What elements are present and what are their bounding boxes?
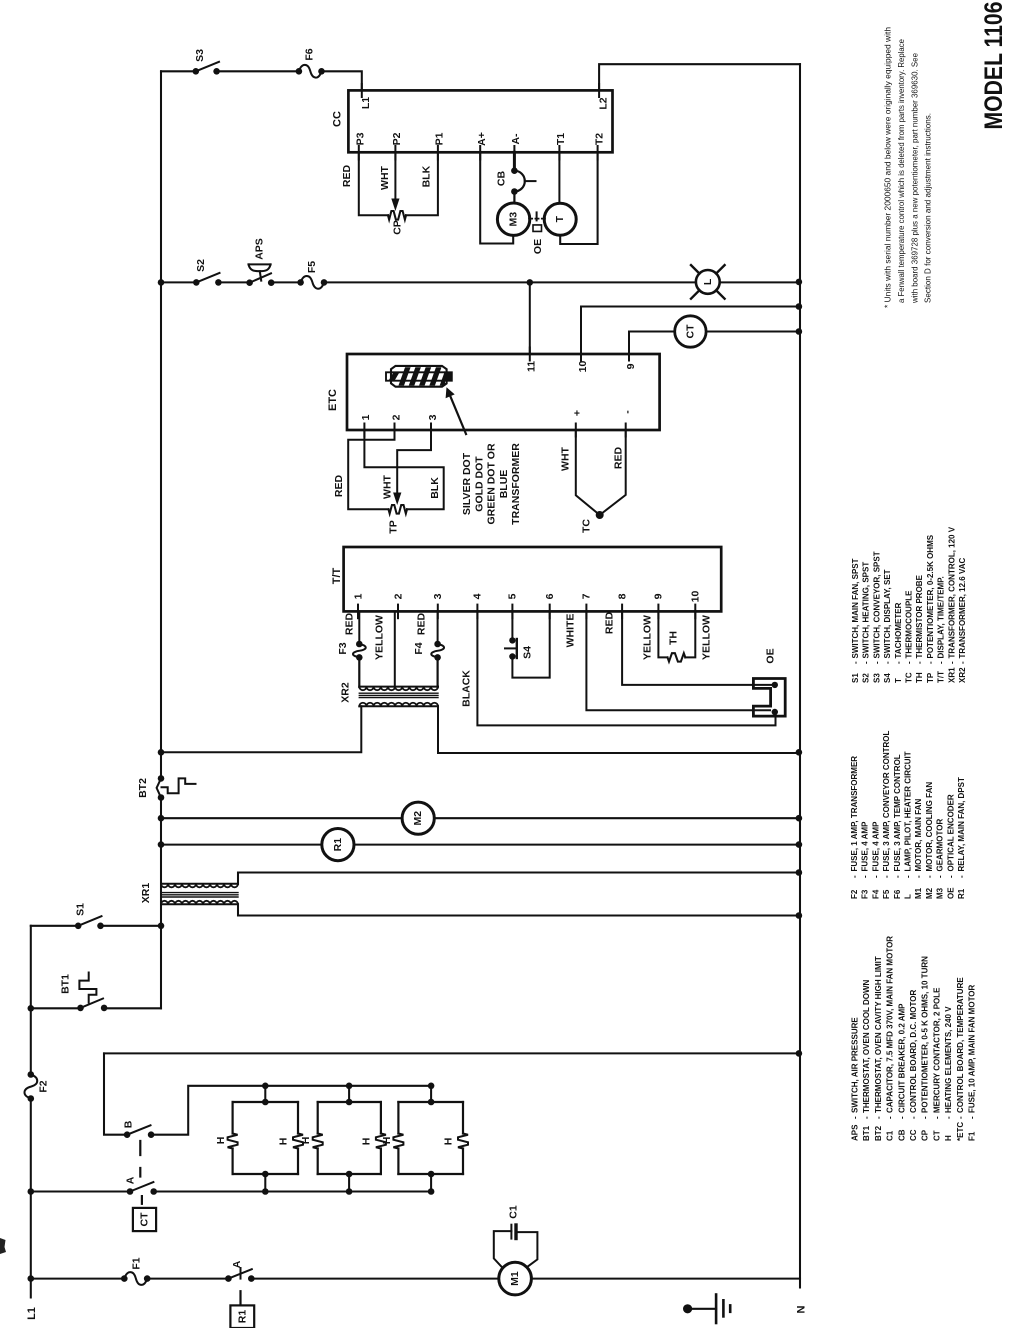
- svg-text:H: H: [360, 1138, 372, 1146]
- svg-text:RED: RED: [341, 164, 353, 187]
- svg-text:YELLOW: YELLOW: [642, 615, 654, 660]
- pin 8 of T/T: [621, 605, 623, 619]
- wire: T/T pin3 (RED) to F4: [437, 611, 439, 644]
- svg-text:F3: F3: [337, 642, 349, 654]
- svg-text:OE: OE: [946, 887, 955, 899]
- svg-text:F2: F2: [850, 889, 859, 899]
- svg-text:-: -: [936, 875, 945, 878]
- svg-text:DISPLAY, TIME/TEMP.: DISPLAY, TIME/TEMP.: [937, 576, 946, 658]
- wire: T/T pin2 (YELLOW) to XR2 tap: [394, 611, 396, 687]
- svg-text:H: H: [443, 1138, 455, 1146]
- svg-text:TP: TP: [926, 672, 935, 683]
- svg-text:CIRCUIT BREAKER, 0.2 AMP: CIRCUIT BREAKER, 0.2 AMP: [897, 1003, 906, 1113]
- switch S1: [75, 923, 82, 930]
- transformer XR2: [359, 686, 438, 688]
- svg-text:THERMOSTAT, OVEN CAVITY HIGH L: THERMOSTAT, OVEN CAVITY HIGH LIMIT: [874, 956, 883, 1113]
- svg-text:OE: OE: [532, 239, 544, 254]
- wire: T1 to tach T: [558, 152, 560, 203]
- pin L2 of CC: [598, 84, 600, 97]
- svg-text:BT2: BT2: [137, 778, 149, 798]
- svg-text:R1: R1: [957, 888, 966, 899]
- svg-text:BLK: BLK: [421, 165, 433, 187]
- svg-text:S4: S4: [522, 646, 534, 659]
- svg-text:MOTOR, COOLING FAN: MOTOR, COOLING FAN: [925, 782, 934, 872]
- svg-text:TC: TC: [581, 519, 593, 533]
- svg-text:RED: RED: [613, 446, 625, 469]
- svg-text:CONTROL BOARD, TEMPERATURE: CONTROL BOARD, TEMPERATURE: [956, 977, 965, 1113]
- svg-text:FUSE, 4 AMP: FUSE, 4 AMP: [871, 821, 880, 872]
- svg-text:R1: R1: [237, 1310, 249, 1324]
- svg-text:F6: F6: [893, 889, 902, 899]
- svg-text:A+: A+: [476, 132, 488, 146]
- pin P1 of CC: [437, 146, 439, 160]
- wire: P2 wiper (WHT): [394, 152, 396, 198]
- wire: XR2 primary right to N bus: [438, 706, 800, 753]
- svg-text:-: -: [861, 875, 870, 878]
- wire: ETC - to TC (RED): [600, 430, 626, 515]
- svg-text:TP: TP: [388, 520, 400, 533]
- svg-text:M2: M2: [925, 887, 934, 899]
- wire: pin11 to F5 line: [529, 282, 531, 354]
- wire: T/T pin8 (RED) to OE: [622, 611, 775, 685]
- svg-text:-: -: [883, 661, 892, 664]
- svg-text:-: -: [862, 1116, 871, 1119]
- svg-text:-: -: [905, 661, 914, 664]
- wire: T/T pin5 to S4: [511, 611, 513, 640]
- svg-text:* Units with serial number 200: * Units with serial number 2000650 and b…: [883, 27, 893, 308]
- wire: P1 to CP (BLK): [406, 152, 438, 215]
- svg-text:-: -: [893, 875, 902, 878]
- svg-text:CC: CC: [331, 111, 343, 127]
- svg-text:4: 4: [472, 593, 484, 599]
- svg-text:BT1: BT1: [60, 974, 72, 994]
- svg-text:9: 9: [653, 593, 665, 599]
- svg-text:WHT: WHT: [560, 446, 572, 470]
- svg-text:-: -: [872, 661, 881, 664]
- pin P3 of CC: [358, 146, 360, 160]
- svg-text:TC: TC: [905, 672, 914, 683]
- svg-text:POTENTIOMETER, 0-5 K OHMS, 10: POTENTIOMETER, 0-5 K OHMS, 10 TURN: [921, 956, 930, 1113]
- svg-text:10: 10: [577, 361, 589, 373]
- svg-text:SWITCH, DISPLAY, SET: SWITCH, DISPLAY, SET: [883, 569, 892, 658]
- junction: left bus / S2 line: [158, 279, 165, 286]
- svg-text:*ETC: *ETC: [956, 1122, 965, 1141]
- optical encoder OE: [753, 679, 785, 717]
- svg-text:-: -: [882, 875, 891, 878]
- svg-text:S2: S2: [862, 673, 871, 683]
- dashed link A to R1 box: [240, 1268, 242, 1279]
- svg-text:WHT: WHT: [379, 165, 391, 189]
- svg-text:10: 10: [690, 591, 702, 603]
- lamp L: [696, 270, 720, 294]
- svg-text:F6: F6: [304, 48, 316, 60]
- svg-text:TRANSFORMER, 12.6 VAC: TRANSFORMER, 12.6 VAC: [958, 558, 967, 659]
- svg-text:M1: M1: [914, 887, 923, 899]
- wire: main left bus (switched L1): [160, 71, 162, 1008]
- potentiometer CP: [388, 211, 406, 220]
- pin 2 of T/T: [397, 605, 399, 619]
- pin 10 of T/T: [694, 605, 696, 619]
- svg-text:THERMOSTAT, OVEN COOL DOWN: THERMOSTAT, OVEN COOL DOWN: [862, 979, 871, 1113]
- svg-text:-: -: [947, 661, 956, 664]
- svg-text:F1: F1: [131, 1257, 143, 1269]
- svg-text:-: -: [937, 661, 946, 664]
- relay R1 (box): [230, 1305, 254, 1328]
- svg-text:A: A: [125, 1176, 137, 1184]
- wire: A- to CB: [513, 152, 516, 170]
- svg-text:WHITE: WHITE: [565, 614, 577, 648]
- pin T2 of CC: [597, 146, 599, 160]
- wire: heater bottom rail: [31, 1190, 431, 1192]
- svg-text:6: 6: [544, 593, 556, 599]
- svg-text:-: -: [874, 1116, 883, 1119]
- wire: TH to T/T pin10 (YELLOW): [685, 611, 695, 657]
- svg-text:-: -: [851, 661, 860, 664]
- svg-text:2: 2: [392, 593, 404, 599]
- svg-text:F3: F3: [861, 889, 870, 899]
- pin 1 of ETC: [363, 424, 365, 437]
- heating elements H pair 3: [398, 1102, 463, 1174]
- wire: R1 line: [161, 844, 800, 846]
- svg-text:YELLOW: YELLOW: [374, 615, 386, 660]
- svg-text:HEATING ELEMENTS, 240 V: HEATING ELEMENTS, 240 V: [944, 1006, 953, 1113]
- svg-text:CC: CC: [909, 1129, 918, 1141]
- svg-text:-: -: [956, 1116, 965, 1119]
- svg-text:5: 5: [507, 593, 519, 599]
- transformer XR1: [161, 883, 238, 885]
- svg-text:M3: M3: [936, 887, 945, 899]
- pin 2 of ETC: [394, 424, 396, 437]
- svg-text:CT: CT: [684, 324, 696, 339]
- svg-text:P2: P2: [391, 132, 403, 145]
- pin 10 of ETC: [580, 348, 582, 361]
- svg-text:RED: RED: [416, 612, 428, 635]
- svg-text:-: -: [894, 661, 903, 664]
- pin P2 of CC: [394, 146, 396, 160]
- svg-text:-: -: [944, 1116, 953, 1119]
- svg-text:-: -: [871, 875, 880, 878]
- svg-text:-: -: [909, 1116, 918, 1119]
- wire: ETC pin3 wiper (WHT): [397, 430, 431, 492]
- mercury contactor CT (box): [133, 1208, 156, 1231]
- wire: T/T pin9 (YELLOW) to TH: [658, 611, 667, 657]
- pin 7 of T/T: [585, 605, 587, 619]
- wire: heater feed drop to B: [104, 1053, 127, 1134]
- pin A+ of CC: [479, 146, 481, 160]
- svg-text:WHT: WHT: [382, 474, 394, 498]
- wire: M2 line: [161, 817, 800, 819]
- svg-text:F4: F4: [871, 889, 880, 899]
- svg-text:S2: S2: [195, 259, 207, 272]
- svg-text:CT: CT: [139, 1212, 151, 1227]
- svg-text:RED: RED: [604, 611, 616, 634]
- pin - of ETC: [625, 424, 627, 437]
- svg-text:3: 3: [427, 414, 439, 420]
- wire: pin10 to N bus: [581, 307, 800, 355]
- svg-text:OPTICAL ENCODER: OPTICAL ENCODER: [946, 794, 955, 871]
- pin 3 of ETC: [430, 424, 432, 437]
- svg-text:with board 369728 plus a new p: with board 369728 plus a new potentiomet…: [909, 53, 919, 304]
- switch S4 (pushbutton): [509, 637, 515, 643]
- svg-text:BLACK: BLACK: [461, 670, 473, 707]
- wire: B to heater top rail: [151, 1086, 431, 1135]
- svg-text:S1: S1: [851, 673, 860, 683]
- svg-text:FUSE, 3 AMP, CONVEYOR CONTROL: FUSE, 3 AMP, CONVEYOR CONTROL: [882, 730, 891, 871]
- svg-text:F2: F2: [38, 1080, 50, 1092]
- wire: F4 to XR2: [437, 657, 439, 687]
- svg-text:-: -: [904, 875, 913, 878]
- svg-text:BT2: BT2: [874, 1125, 883, 1141]
- svg-text:-: -: [862, 661, 871, 664]
- svg-text:CP: CP: [921, 1129, 930, 1141]
- svg-text:F5: F5: [306, 261, 318, 273]
- svg-text:FUSE, 1 AMP, TRANSFORMER: FUSE, 1 AMP, TRANSFORMER: [850, 756, 859, 872]
- svg-text:XR2: XR2: [958, 667, 967, 683]
- svg-text:-: -: [968, 1116, 977, 1119]
- wire: pin9 to CT coil: [629, 332, 675, 355]
- svg-text:RED: RED: [344, 612, 356, 635]
- svg-text:-: -: [622, 410, 634, 414]
- svg-text:CONTROL BOARD, D.C. MOTOR: CONTROL BOARD, D.C. MOTOR: [909, 990, 918, 1113]
- pin + of ETC: [575, 424, 577, 437]
- control board ETC: [347, 354, 660, 430]
- svg-text:SWITCH, CONVEYOR, SPST: SWITCH, CONVEYOR, SPST: [872, 551, 881, 658]
- wire: main fan line: [31, 1278, 800, 1280]
- pin 9 of T/T: [657, 605, 659, 619]
- svg-text:-: -: [958, 661, 967, 664]
- wire: N bus (right vertical): [799, 64, 801, 1287]
- svg-text:L: L: [702, 278, 714, 285]
- svg-text:POTENTIOMETER, 0-2.5K OHMS: POTENTIOMETER, 0-2.5K OHMS: [926, 534, 935, 658]
- svg-text:-: -: [957, 875, 966, 878]
- switch S2: [193, 279, 200, 286]
- svg-text:+: +: [572, 410, 584, 416]
- wire: CT coil to N bus: [706, 331, 800, 333]
- svg-text:Section D for conversion and a: Section D for conversion and adjustment …: [923, 113, 933, 303]
- svg-text:XR1: XR1: [947, 667, 956, 683]
- svg-text:T/T: T/T: [331, 567, 343, 584]
- svg-text:9: 9: [625, 363, 637, 369]
- svg-text:MERCURY CONTACTOR, 2 POLE: MERCURY CONTACTOR, 2 POLE: [932, 987, 941, 1113]
- fuse F4: [431, 644, 444, 657]
- relay contact A (fan): [225, 1275, 232, 1282]
- svg-text:THERMISTOR PROBE: THERMISTOR PROBE: [915, 574, 924, 658]
- pin 3 of T/T: [437, 605, 439, 619]
- capacitor C1: [510, 1225, 512, 1239]
- svg-text:R1: R1: [332, 838, 344, 852]
- svg-text:SWITCH, MAIN FAN, SPST: SWITCH, MAIN FAN, SPST: [851, 558, 860, 658]
- svg-text:M1: M1: [509, 1271, 521, 1286]
- control board CC: [348, 90, 612, 152]
- junction: F5 line / N bus: [796, 279, 803, 286]
- svg-text:RELAY, MAIN FAN, DPST: RELAY, MAIN FAN, DPST: [957, 777, 966, 871]
- contactor contact B: [124, 1131, 131, 1138]
- wire: T/T pin4 (BLACK) to OE: [477, 611, 775, 725]
- wire: XR2 primary left to bus: [161, 706, 361, 752]
- svg-text:A-: A-: [510, 133, 522, 145]
- svg-text:-: -: [921, 1116, 930, 1119]
- svg-text:TRANSFORMER: TRANSFORMER: [510, 443, 522, 525]
- svg-text:CAPACITOR, 7.5 MFD 370V, MAIN: CAPACITOR, 7.5 MFD 370V, MAIN FAN MOTOR: [886, 936, 895, 1113]
- svg-text:S3: S3: [872, 673, 881, 683]
- svg-text:H: H: [381, 1137, 393, 1145]
- svg-text:H: H: [215, 1137, 227, 1145]
- wire: XR1 secondary bottom to N bus: [238, 904, 800, 915]
- svg-text:-: -: [926, 661, 935, 664]
- pin L1 of CC: [361, 84, 363, 97]
- svg-text:C1: C1: [886, 1130, 895, 1141]
- fuse F5: [301, 276, 324, 289]
- svg-text:TRANSFORMER, CONTROL, 120 V: TRANSFORMER, CONTROL, 120 V: [947, 526, 956, 658]
- heating elements H pair 1: [233, 1102, 298, 1174]
- svg-text:H: H: [300, 1137, 312, 1145]
- svg-text:N: N: [796, 1305, 808, 1313]
- svg-text:P3: P3: [355, 132, 367, 145]
- svg-text:SILVER DOT: SILVER DOT: [461, 452, 473, 515]
- dashed link A to CT box: [141, 1196, 143, 1204]
- svg-text:BT1: BT1: [862, 1125, 871, 1141]
- pin T1 of CC: [558, 146, 560, 160]
- wire: P3 to CP (RED): [359, 152, 388, 215]
- svg-text:APS: APS: [254, 238, 266, 260]
- svg-text:S3: S3: [194, 49, 206, 62]
- svg-text:T: T: [894, 678, 903, 683]
- wire: S2-APS-F5 line: [161, 281, 800, 283]
- svg-text:H: H: [278, 1138, 290, 1146]
- tachometer T: [544, 203, 576, 235]
- svg-text:M3: M3: [508, 212, 520, 227]
- svg-text:SWITCH, HEATING, SPST: SWITCH, HEATING, SPST: [862, 562, 871, 659]
- junction dots on heater top rail: [262, 1083, 269, 1090]
- dashed link B to A: [139, 1141, 141, 1177]
- pin 6 of T/T: [549, 605, 551, 619]
- motor M2 (cooling fan): [402, 802, 434, 834]
- svg-text:M2: M2: [412, 811, 424, 826]
- svg-text:-: -: [932, 1116, 941, 1119]
- svg-text:1: 1: [360, 414, 372, 420]
- svg-text:11: 11: [526, 361, 538, 372]
- junction: left bus / S1 line: [158, 923, 165, 930]
- ground connection: [683, 1304, 692, 1313]
- svg-text:THERMOCOUPLE: THERMOCOUPLE: [905, 590, 914, 659]
- svg-text:-: -: [925, 875, 934, 878]
- wire: heater feed from N bus: [104, 1052, 800, 1054]
- contactor coil CT: [675, 316, 706, 347]
- pin A- of CC: [513, 146, 515, 160]
- svg-text:MOTOR, MAIN FAN: MOTOR, MAIN FAN: [914, 799, 923, 872]
- svg-text:APS: APS: [851, 1124, 860, 1141]
- circuit breaker CB: [511, 167, 518, 174]
- svg-text:S4: S4: [883, 673, 892, 683]
- svg-text:BLUE: BLUE: [498, 470, 510, 499]
- svg-text:C1: C1: [508, 1205, 520, 1219]
- svg-text:BLK: BLK: [429, 477, 441, 499]
- svg-text:8: 8: [616, 593, 628, 599]
- svg-text:RED: RED: [333, 474, 345, 497]
- svg-text:-: -: [886, 1116, 895, 1119]
- svg-text:L1: L1: [360, 97, 372, 109]
- svg-text:T1: T1: [555, 133, 567, 145]
- fuse F2: [24, 1075, 37, 1099]
- annotation arrow to transformer: [450, 396, 466, 435]
- contactor contact A (heater): [127, 1188, 134, 1195]
- svg-text:LAMP, PILOT, HEATER CIRCUIT: LAMP, PILOT, HEATER CIRCUIT: [904, 751, 913, 871]
- scan artifact (left edge): [0, 1238, 6, 1254]
- wire: A+ to M3: [480, 152, 513, 243]
- gearmotor M3: [497, 203, 529, 235]
- switch APS (air pressure): [246, 279, 253, 286]
- svg-text:S1: S1: [75, 903, 87, 916]
- svg-text:-: -: [946, 875, 955, 878]
- fuse F1: [124, 1272, 147, 1285]
- svg-text:F5: F5: [882, 889, 891, 899]
- svg-text:F4: F4: [413, 642, 425, 654]
- wire: BT1 line: [31, 1007, 161, 1009]
- svg-text:ETC: ETC: [327, 389, 339, 411]
- svg-text:L: L: [904, 894, 913, 899]
- wire: T to T2: [560, 152, 597, 244]
- pin 5 of T/T: [511, 605, 513, 619]
- svg-text:XR2: XR2: [340, 682, 352, 703]
- svg-text:FUSE, 10 AMP, MAIN FAN MOTOR: FUSE, 10 AMP, MAIN FAN MOTOR: [968, 984, 977, 1113]
- pin 1 of T/T: [357, 605, 359, 619]
- svg-text:-: -: [851, 1116, 860, 1119]
- svg-text:H: H: [944, 1135, 953, 1141]
- svg-text:3: 3: [432, 593, 444, 599]
- svg-text:TH: TH: [915, 672, 924, 683]
- svg-text:SWITCH, AIR PRESSURE: SWITCH, AIR PRESSURE: [851, 1017, 860, 1113]
- pin 11 of ETC: [529, 348, 531, 361]
- svg-text:T: T: [554, 215, 566, 222]
- potentiometer TP: [389, 505, 408, 514]
- wire: heater group feed stubs: [265, 1086, 431, 1102]
- svg-text:CP: CP: [392, 220, 404, 235]
- wire: L2 to N bus corner: [599, 64, 800, 90]
- svg-text:-: -: [850, 875, 859, 878]
- junction: L1 bus / BT1 line: [28, 1005, 35, 1012]
- thermostat BT2: [158, 775, 165, 782]
- wire: T/T pin1 (RED) to F3: [358, 611, 360, 644]
- wire: CB to M3: [513, 192, 515, 204]
- wire: T/T pin7 (WHITE) to OE: [586, 611, 770, 710]
- svg-text:7: 7: [581, 593, 593, 599]
- capacitor C1 loop: [494, 1231, 512, 1268]
- svg-text:TACHOMETER: TACHOMETER: [894, 602, 903, 658]
- transformer (dotted) inside ETC: [386, 364, 452, 389]
- svg-text:P1: P1: [434, 132, 446, 145]
- svg-text:OE: OE: [765, 648, 777, 663]
- svg-text:L1: L1: [26, 1307, 38, 1320]
- svg-text:GOLD DOT: GOLD DOT: [473, 456, 485, 512]
- fuse F3: [353, 644, 366, 657]
- svg-text:-: -: [914, 875, 923, 878]
- wire: S3-F6 line to CC L1: [161, 71, 362, 90]
- svg-text:TH: TH: [668, 631, 680, 645]
- pin 4 of T/T: [476, 605, 478, 619]
- svg-text:-: -: [915, 661, 924, 664]
- wire: heater bottom stubs: [265, 1174, 431, 1192]
- svg-text:CT: CT: [932, 1130, 941, 1141]
- svg-text:GEARMOTOR: GEARMOTOR: [936, 819, 945, 872]
- svg-text:MODEL 1106: MODEL 1106: [980, 2, 1008, 130]
- svg-text:XR1: XR1: [140, 883, 152, 904]
- svg-text:-: -: [897, 1116, 906, 1119]
- svg-text:CB: CB: [897, 1129, 906, 1141]
- wire: ETC pin1 (BLK): [364, 430, 443, 509]
- svg-text:L2: L2: [598, 97, 610, 109]
- thermostat BT1: [77, 1005, 84, 1012]
- thermistor TH: [668, 653, 686, 661]
